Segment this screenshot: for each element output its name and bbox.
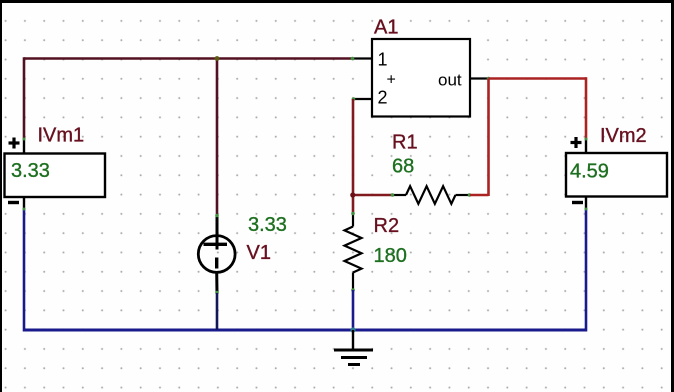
terminal dot pin 2: [352, 97, 356, 101]
label IVm2: [600, 125, 647, 147]
wire IVm2 - terminal down (net4): [585, 209, 588, 332]
wire R2 bottom to ground junction (net4): [352, 290, 355, 330]
voltmeter IVm1 (box with +/- terminals): [5, 138, 106, 211]
label IVm1: [38, 125, 85, 147]
svg-text:IVm1: IVm1: [38, 125, 85, 147]
svg-text:V1: V1: [247, 242, 271, 264]
resistor R2 (vertical zigzag with leads): [345, 212, 362, 292]
wire V1 bottom drop (net4): [216, 293, 219, 330]
op-amp U A1 (amplifier box with pin stubs): [352, 39, 488, 117]
svg-text:4.59: 4.59: [570, 161, 609, 183]
svg-text:3.33: 3.33: [11, 160, 50, 182]
wire left vertical from top net to IVm1 + terminal: [23, 57, 26, 139]
svg-text:IVm2: IVm2: [600, 125, 647, 147]
pin label +: [387, 72, 396, 89]
value 180 (R2): [374, 245, 407, 267]
svg-text:+: +: [387, 72, 396, 89]
svg-text:R1: R1: [392, 132, 418, 154]
wire feedback vertical (net3): [487, 79, 490, 197]
terminal dot pin 1: [351, 57, 355, 61]
pin number 1: [378, 50, 388, 70]
wire net2 stub down to R2 top terminal: [352, 195, 355, 214]
wire bottom horizontal ground net (net4): [24, 329, 586, 332]
pin label out: [438, 71, 462, 90]
junction node top wire / V1: [215, 56, 220, 61]
svg-text:180: 180: [374, 245, 407, 267]
wire out horizontal (net3): [489, 77, 587, 80]
svg-text:R2: R2: [374, 215, 400, 237]
wire down to IVm2 + terminal (net3): [585, 77, 588, 139]
pin number 2: [378, 88, 388, 108]
value 4.59 (IVm2 reading): [570, 161, 609, 183]
svg-text:2: 2: [378, 88, 388, 108]
wire top horizontal (net1): [24, 57, 353, 60]
label A1: [374, 17, 398, 39]
voltage source V1 (circle symbol with + and dash): [198, 214, 235, 295]
value 3.33 (V1 source voltage): [248, 214, 287, 236]
label R2: [374, 215, 400, 237]
wire pin2 vertical (net2): [352, 99, 355, 196]
label R1: [392, 132, 418, 154]
junction node pin2/R1/R2: [350, 192, 355, 197]
svg-text:3.33: 3.33: [248, 214, 287, 236]
svg-text:out: out: [438, 71, 462, 90]
resistor R1 (horizontal zigzag with leads): [391, 186, 472, 204]
label V1: [247, 242, 271, 264]
ground symbol: [334, 330, 373, 365]
value 3.33 (IVm1 reading): [11, 160, 50, 182]
wire net2 horizontal to R1 left terminal: [353, 194, 393, 197]
wire R1 right terminal to feedback vertical (net3): [470, 194, 489, 197]
junction node at ground: [350, 327, 355, 332]
voltmeter IVm2 (box with +/- terminals): [566, 137, 667, 211]
wire V1 top drop (net1): [216, 59, 219, 216]
wire IVm1 - terminal down (net4): [23, 209, 26, 332]
value 68 (R1): [392, 156, 414, 178]
svg-text:68: 68: [392, 156, 414, 178]
svg-text:1: 1: [378, 50, 388, 70]
terminal dot out: [487, 77, 491, 81]
svg-text:A1: A1: [374, 17, 398, 39]
